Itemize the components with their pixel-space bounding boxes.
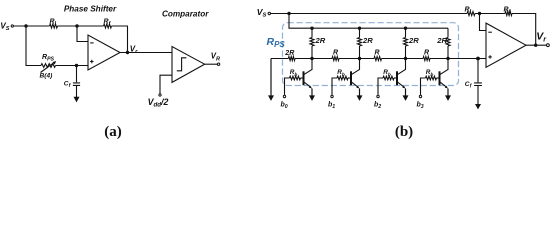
svg-text:R: R (424, 49, 429, 56)
wire A down to RPS row (26, 26, 41, 66)
svg-text:Vr: Vr (130, 44, 138, 55)
resistor RPS variable (a) (41, 64, 56, 68)
wire down to inverting input (b) (480, 14, 487, 31)
resistor 2R vertical #3 (405, 28, 407, 37)
resistor 2R vertical #1 (311, 28, 313, 37)
op-amp U1 (a) (88, 35, 120, 70)
svg-text:(a): (a) (104, 124, 122, 140)
svg-text:VR: VR (211, 52, 220, 63)
wire comparator output, node VR (205, 63, 218, 65)
node b1 input terminal (332, 78, 337, 95)
comparator U2 (a) with hysteresis (172, 47, 205, 83)
transistor Q2 cell (397, 59, 406, 75)
capacitor Cf (b) (476, 57, 480, 61)
ground left termination (270, 59, 272, 96)
junction top rail to inverting input (478, 12, 481, 15)
wire op-amp output to comparator, node Vr (120, 52, 172, 54)
transistor Q1 cell (351, 59, 360, 75)
junction rail2 tap 2 (358, 27, 361, 30)
node B junction (inverting input feed) (75, 24, 78, 27)
svg-text:b2: b2 (374, 102, 381, 111)
svg-text:R: R (375, 49, 380, 56)
svg-text:2R: 2R (315, 36, 326, 45)
svg-text:Comparator: Comparator (162, 9, 209, 18)
svg-text:B(4): B(4) (40, 72, 53, 79)
wire output node Vr (b) (526, 44, 546, 46)
ground below Cf (b) (475, 86, 481, 110)
resistor Rb of Q1 (348, 77, 351, 79)
node b2 input terminal (378, 78, 383, 95)
wire B to op-amp inverting input (77, 26, 88, 42)
svg-text:2R: 2R (362, 36, 373, 45)
node b3 input terminal (421, 78, 426, 95)
svg-text:Vdd/2: Vdd/2 (148, 97, 169, 109)
svg-text:2R: 2R (284, 50, 294, 57)
wire RPS to non-inverting input (56, 65, 89, 67)
dashed box RPS equivalent (283, 23, 459, 86)
ground emitter Q3 (445, 89, 451, 101)
ground emitter Q2 (403, 89, 409, 101)
junction rail3 tap 2 (358, 57, 361, 60)
resistor Rb of Q3 (437, 77, 440, 79)
ground emitter Q1 (357, 89, 363, 101)
ground rail3 left end (268, 59, 274, 101)
ground emitter Q0 (309, 89, 315, 101)
resistor Rf (b) (505, 12, 512, 16)
resistor R series 1 (332, 57, 339, 61)
capacitor Cf (a) (76, 66, 78, 83)
junction rail3 tap 3 (404, 57, 407, 60)
svg-text:R: R (333, 49, 338, 56)
resistor Rb of Q2 (394, 77, 397, 79)
resistor R series 2 (374, 57, 382, 61)
svg-text:RPS: RPS (42, 54, 55, 63)
wire top rail (b) (271, 14, 536, 46)
node b0 input terminal (285, 78, 290, 95)
resistor R series 3 (423, 57, 430, 61)
junction rail2 tap 3 (404, 27, 407, 30)
op-amp U3 (b) (486, 23, 526, 67)
resistor 2R terminating (left) (288, 57, 295, 61)
junction rail2 tap 1 (310, 27, 313, 30)
junction rail3 tap 1 (310, 57, 313, 60)
svg-text:VS: VS (257, 7, 267, 19)
wire ladder rail 2 (289, 14, 448, 29)
svg-text:b3: b3 (417, 102, 424, 111)
svg-text:Cf: Cf (64, 80, 72, 89)
junction rail3 tap 4 (446, 57, 449, 60)
svg-text:(b): (b) (395, 124, 413, 140)
svg-text:b1: b1 (328, 102, 335, 111)
resistor 2R vertical #2 (359, 28, 361, 37)
wire top rail (a) (14, 26, 128, 53)
resistor RI (b) (467, 12, 475, 16)
resistor RI (a) (50, 24, 58, 28)
junction top rail to ladder (287, 12, 290, 15)
resistor 2R vertical #4 (447, 28, 449, 37)
wire ladder rail 3 (271, 58, 486, 60)
svg-text:Phase Shifter: Phase Shifter (64, 4, 117, 13)
wire comparator lower input from Vdd/2 (160, 75, 172, 93)
svg-text:2R: 2R (436, 36, 447, 45)
ground below Cf (a) (74, 85, 80, 102)
node C junction (Cf tap) (75, 64, 78, 67)
svg-text:b0: b0 (281, 102, 288, 111)
svg-text:Vr: Vr (536, 32, 547, 44)
node A junction (24, 24, 27, 27)
transistor Q0 cell (304, 59, 313, 75)
resistor Rb of Q0 (301, 77, 304, 79)
svg-text:Cf: Cf (465, 81, 473, 90)
svg-text:2R: 2R (408, 36, 419, 45)
svg-text:VS: VS (0, 22, 9, 33)
resistor Rf (a) (104, 24, 112, 28)
transistor Q3 cell (440, 59, 449, 75)
